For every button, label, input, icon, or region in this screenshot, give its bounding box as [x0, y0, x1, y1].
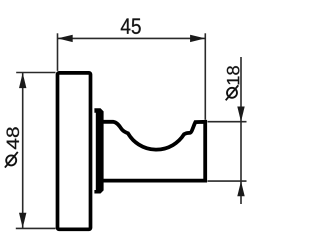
dimension "Ø48": dimension line [22, 73, 24, 229]
dimension "45": left extension line (wall face) [57, 33, 59, 71]
dimension "45": left arrowhead [58, 35, 73, 42]
dimension "Ø18": diameter symbol slash [226, 85, 239, 100]
dimension "Ø18": top extension line [208, 121, 247, 123]
dimension "Ø18": lower arrowhead (pointing up) [237, 181, 244, 196]
mounting collar ring behind hook body [94, 108, 103, 193]
dimension "Ø48": top arrowhead (pointing up) [19, 73, 26, 88]
hook body outline (post with concave saddle and Ø18 end disc) [103, 122, 205, 181]
dimension "Ø18": digits "18" (rotated) [227, 66, 240, 84]
dimension "Ø48": digits "48" (rotated) [7, 127, 20, 149]
dimension "45": dimension line [58, 37, 206, 39]
dimension "45": right extension line (hook tip) [204, 33, 206, 120]
dimension "Ø48": top extension line [16, 72, 55, 74]
dimension "Ø18": bottom extension line [208, 180, 247, 182]
dimension "Ø18": diameter symbol circle [227, 88, 237, 98]
wall flange plate (side view of Ø48 disc) [58, 73, 91, 229]
dimension "Ø48": diameter symbol slash [5, 152, 18, 168]
dimension "Ø48": bottom extension line [16, 227, 56, 229]
dimension "Ø48": bottom arrowhead (pointing down) [19, 213, 26, 228]
dimension "45": value label [121, 18, 141, 34]
dimension "Ø18": dimension line [240, 57, 242, 204]
dimension "Ø48": diameter symbol circle [6, 155, 16, 165]
dimension "Ø18": upper arrowhead (pointing down) [237, 107, 244, 122]
dimension "45": right arrowhead [190, 35, 205, 42]
